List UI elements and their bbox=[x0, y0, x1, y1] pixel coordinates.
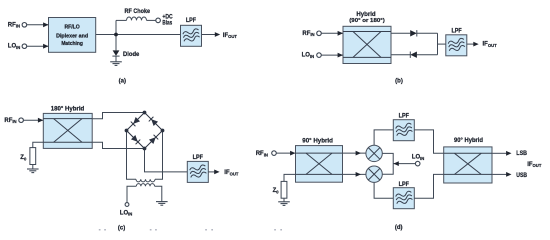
svg-text:IFOUT: IFOUT bbox=[223, 33, 238, 39]
svg-text:LOIN: LOIN bbox=[412, 155, 425, 161]
svg-text:IFOUT: IFOUT bbox=[483, 42, 498, 48]
svg-text:IFOUT: IFOUT bbox=[224, 170, 239, 176]
svg-text:LPF: LPF bbox=[193, 155, 204, 161]
svg-text:RFIN: RFIN bbox=[256, 151, 268, 157]
svg-text:RFIN: RFIN bbox=[8, 22, 20, 28]
svg-text:+DC: +DC bbox=[162, 14, 173, 20]
svg-text:LPF: LPF bbox=[451, 29, 462, 35]
svg-text:90° Hybrid: 90° Hybrid bbox=[302, 138, 333, 144]
svg-text:LPF: LPF bbox=[186, 18, 197, 24]
svg-text:Bias: Bias bbox=[162, 21, 172, 27]
svg-text:RF Choke: RF Choke bbox=[125, 9, 151, 15]
svg-text:USB: USB bbox=[516, 173, 527, 179]
svg-text:LOIN: LOIN bbox=[8, 44, 21, 50]
svg-text:LOIN: LOIN bbox=[120, 210, 133, 216]
svg-text:(a): (a) bbox=[119, 79, 126, 85]
svg-text:LSB: LSB bbox=[516, 151, 527, 157]
svg-text:90° Hybrid: 90° Hybrid bbox=[454, 138, 483, 144]
svg-text:Hybrid: Hybrid bbox=[356, 12, 376, 18]
svg-text:LPF: LPF bbox=[399, 114, 410, 120]
svg-text:Z0: Z0 bbox=[20, 155, 27, 161]
svg-text:RFIN: RFIN bbox=[302, 31, 314, 37]
svg-text:(c): (c) bbox=[118, 225, 125, 231]
svg-text:(d): (d) bbox=[395, 225, 403, 231]
svg-text:180° Hybrid: 180° Hybrid bbox=[51, 107, 85, 113]
svg-text:IFOUT: IFOUT bbox=[527, 162, 542, 168]
svg-text:LPF: LPF bbox=[399, 182, 410, 188]
svg-text:Z0: Z0 bbox=[273, 188, 280, 194]
svg-text:Diode: Diode bbox=[123, 52, 140, 58]
svg-text:LOIN: LOIN bbox=[302, 53, 315, 59]
svg-text:(90° or 180°): (90° or 180°) bbox=[349, 18, 385, 24]
svg-text:Diplexer and: Diplexer and bbox=[56, 33, 88, 39]
svg-text:Matching: Matching bbox=[61, 41, 83, 47]
svg-text:RF/LO: RF/LO bbox=[64, 25, 79, 31]
svg-text:(b): (b) bbox=[395, 79, 403, 85]
svg-text:RFIN: RFIN bbox=[4, 118, 16, 124]
